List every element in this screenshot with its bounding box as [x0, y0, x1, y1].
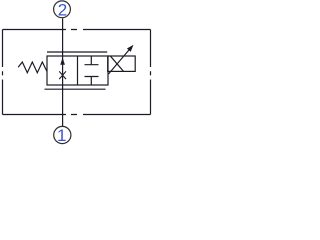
- svg-text:1: 1: [57, 126, 66, 145]
- svg-text:2: 2: [58, 0, 67, 19]
